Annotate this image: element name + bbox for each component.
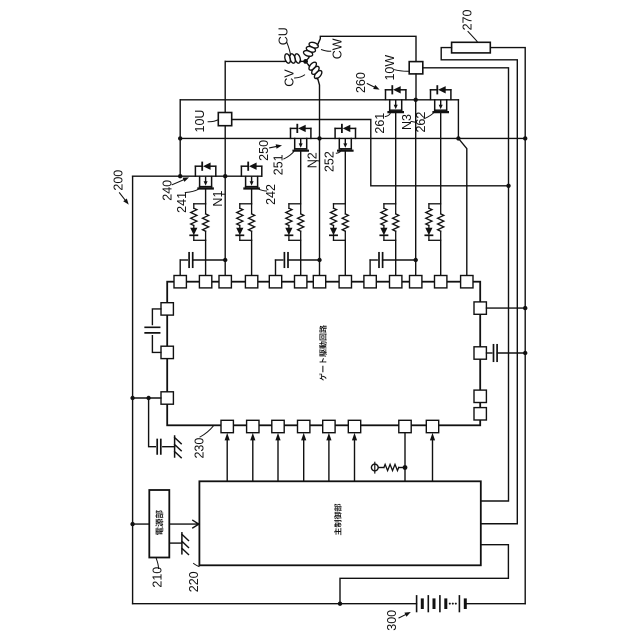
wire: branch down to decoupling capacitor and ground (230): [149, 398, 156, 447]
junction: bus250 / battery rail: [523, 136, 527, 140]
wire: CV lead down to node N2 vertical: [318, 79, 320, 138]
wire: capacitor group 1 to phase line: [193, 259, 226, 261]
wire + capacitor from right pin R2 to battery rail: [486, 352, 491, 354]
wire with up-arrow from main control box to gate driver pin: [354, 438, 356, 482]
wire: N3 phase line down to gate driver pin: [415, 100, 417, 276]
svg-text:261: 261: [373, 113, 387, 134]
wire with up-arrow from main control box to gate driver pin: [252, 438, 254, 482]
gate network for 242: resistor + diode parallel branch: [236, 204, 255, 241]
pins: gate driver top edge: [174, 276, 186, 288]
wire: X517 line into main control box pin: [481, 523, 518, 525]
wire: vertical link x=180.2 joining three buses: [179, 100, 181, 176]
main control unit box (220): [199, 481, 480, 565]
wire with up-arrow from main control box to gate driver pin: [226, 438, 228, 482]
node N3 on bus260: [414, 98, 418, 102]
wire: bus of pair 240 (y=176.2) from outer left corner: [133, 175, 262, 177]
wire: left pin L3 to outer left vertical: [133, 397, 161, 399]
transistor 262 (MOSFET with body diode): [431, 86, 451, 112]
pins: gate driver right edge: [474, 302, 486, 314]
capacitor to ground near 230: [156, 440, 158, 454]
wire: bus of pair 260 (drain rail, y=99.8): [180, 99, 458, 101]
terminal circle + resistor on pin7 line: [371, 464, 378, 471]
wire: pin stub for bootstrap capacitor group 3: [369, 260, 371, 276]
ground symbol (gate driver): [174, 436, 176, 457]
wire with up-arrow from main control box to gate driver pin: [303, 438, 305, 482]
svg-text:10W: 10W: [383, 55, 397, 81]
svg-text:220: 220: [187, 571, 201, 592]
wire: 252 RC network lead down to gate driver pin: [344, 240, 346, 275]
wire: vertical link from bus260 down to bus250 at x=458.4: [457, 100, 459, 139]
gate network for 241: resistor + diode parallel branch: [190, 204, 209, 241]
svg-text:270: 270: [460, 10, 474, 31]
svg-text:262: 262: [414, 112, 428, 133]
svg-text:300: 300: [385, 610, 399, 631]
inductor CW (motor W-phase coil): [306, 58, 309, 62]
power supply box (210): [149, 490, 169, 558]
pins: gate driver bottom edge: [221, 420, 233, 432]
svg-text:N1: N1: [211, 191, 225, 207]
resistor 270 (top right): [452, 42, 491, 53]
transistor 252 (MOSFET with body diode): [335, 125, 355, 151]
wire: 261 RC network lead down to gate driver pin: [395, 240, 397, 275]
wire: gate lead of 261 down to its RC network: [395, 112, 397, 204]
svg-text:242: 242: [264, 184, 278, 205]
ground symbol (power supply): [181, 533, 183, 554]
wire: power supply ground stub: [169, 542, 182, 544]
capacitor (bootstrap) group 3: [370, 259, 377, 261]
svg-text:200: 200: [111, 170, 125, 191]
gate network for 262: resistor + diode parallel branch: [425, 204, 444, 241]
wire: CW lead up to top horizontal run: [318, 36, 416, 61]
capacitor (bootstrap) group 2: [276, 259, 283, 261]
svg-text:230: 230: [193, 438, 207, 459]
capacitor (bootstrap) group 1: [180, 259, 187, 261]
junction: bus250 / pin13 branch: [456, 136, 460, 140]
svg-text:210: 210: [150, 567, 164, 588]
wire: capacitor group 2 to phase line: [288, 259, 320, 261]
wire: battery to rail right: [465, 603, 525, 605]
svg-text:CW: CW: [330, 38, 344, 59]
wire: gate lead of 241 down to its RC network: [205, 189, 207, 204]
transistor 251 (MOSFET with body diode): [291, 125, 311, 151]
wire: N1 phase line down to gate driver pin: [224, 176, 226, 275]
svg-text:252: 252: [323, 151, 337, 172]
wire: 270 left lead down and right to line X517: [441, 48, 517, 524]
wire: 10U sensor output hook to line X508: [232, 120, 509, 186]
node N2 on bus250: [317, 136, 321, 140]
text: main control unit: [334, 504, 341, 535]
wire + capacitor between left pins L1 and L2: [152, 309, 161, 325]
wire: pin stub for bootstrap capacitor group 2: [275, 260, 277, 276]
inductor CU (motor U-phase coil): [284, 53, 302, 64]
wire: U-phase lead from coil CU to node N1 line: [225, 60, 284, 62]
wire with up-arrow from main control box to gate driver pin: [432, 438, 434, 482]
svg-text:241: 241: [175, 192, 189, 213]
transistor 241 (MOSFET with body diode): [195, 163, 215, 189]
wire: bottom horizontal to battery: [133, 603, 417, 605]
wire: capacitor group 3 to phase line: [383, 259, 416, 261]
wire: 262 RC network lead down to gate driver pin: [440, 240, 442, 275]
junction: bus240 / x180 link: [178, 174, 182, 178]
junction: bus250 / x180 link: [178, 136, 182, 140]
node: motor star point: [303, 59, 308, 64]
wire: gate driver bottom pin 7 line to main control box: [404, 433, 406, 482]
wire: 241 RC network lead down to gate driver pin: [205, 240, 207, 275]
inductor CV (motor V-phase coil): [306, 61, 309, 65]
node N1 on bus240: [223, 174, 227, 178]
gate drive circuit box (230 block): [167, 282, 480, 426]
svg-text:10U: 10U: [193, 110, 207, 133]
text: gate drive circuit: [319, 325, 327, 381]
wire: right pin R1 to battery rail: [486, 307, 525, 309]
wire: gate lead of 262 down to its RC network: [440, 112, 442, 204]
wire: bus of pair 250 (y=138.4): [180, 137, 525, 139]
battery 300 (DC source): [417, 596, 466, 612]
wire: 251 RC network lead down to gate driver pin: [300, 240, 302, 275]
svg-text:250: 250: [257, 140, 271, 161]
svg-text:240: 240: [161, 180, 175, 201]
wire: N2 phase line down to gate driver pin: [319, 138, 321, 275]
wire: 10W sensor output to line X508 down to main control box: [423, 68, 509, 501]
gate network for 251: resistor + diode parallel branch: [285, 204, 304, 241]
wire with open arrow: power supply output to main control box: [169, 523, 198, 525]
current sensor 10W box in series with N3 line: [409, 62, 423, 74]
gate network for 261: resistor + diode parallel branch: [380, 204, 399, 241]
svg-text:CU: CU: [277, 27, 291, 45]
wire: gate lead of 252 down to its RC network: [344, 151, 346, 204]
transistor 261 (MOSFET with body diode): [386, 86, 406, 112]
wire: diagonal from bus250 to pin13 stub: [458, 138, 466, 275]
svg-text:260: 260: [354, 72, 368, 93]
svg-text:251: 251: [272, 154, 286, 175]
wire: outer left vertical (200 boundary): [132, 176, 134, 604]
wire: pin stub for bootstrap capacitor group 1: [179, 260, 181, 276]
current sensor 10U box in series with N1 line: [224, 61, 226, 112]
wire with up-arrow from main control box to gate driver pin: [277, 438, 279, 482]
wire: outer left vertical to power supply input: [133, 523, 150, 525]
gate network for 252: resistor + diode parallel branch: [330, 204, 349, 241]
wire: gate lead of 251 down to its RC network: [300, 151, 302, 204]
text: power supply: [155, 510, 163, 535]
wire: 242 RC network lead down to gate driver pin: [251, 240, 253, 275]
wire: gate lead of 242 down to its RC network: [251, 189, 253, 204]
wire: 270 right lead to battery rail: [490, 48, 525, 604]
wire: main control ground return path: [340, 545, 508, 604]
transistor 242 (MOSFET with body diode): [241, 163, 261, 189]
wire with up-arrow from main control box to gate driver pin: [328, 438, 330, 482]
pins: gate driver left edge: [161, 303, 173, 315]
